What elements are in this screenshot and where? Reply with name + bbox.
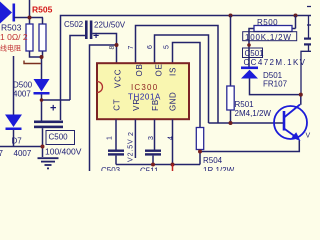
capacitor C503 [108,150,124,165]
svg-text:6: 6 [147,45,154,49]
svg-text:2M4,1/2W: 2M4,1/2W [235,109,272,118]
wire: resistor bottom leads [30,51,43,79]
IC notch [97,82,103,93]
transistor Q501 [274,105,307,142]
wire: C502 left plate branch [70,36,85,101]
wire: ground bus [116,164,200,166]
diode bridge (cut at left edge) [0,2,15,24]
svg-text:R505: R505 [32,5,53,15]
svg-text:4007: 4007 [14,149,32,158]
svg-text:7: 7 [128,46,135,50]
svg-text:VCC: VCC [113,69,122,88]
wire: C502 right plate to pin8 [90,34,117,172]
wire: bridge to resistors [14,17,43,19]
capacitor C510 at right edge [301,16,311,95]
svg-text:1R,1/2W: 1R,1/2W [203,166,235,171]
wire: pin5 loop to R504 [173,43,201,128]
node: bus junction pin4 [171,163,175,167]
svg-text:D500: D500 [13,81,33,90]
svg-text:IC300: IC300 [131,83,158,92]
svg-text:2: 2 [128,132,135,136]
node: junction bridge/resistors [28,16,32,20]
wire: right resistor top lead [42,18,44,25]
wire: pin4 lead [172,120,174,165]
wire: emitter return [200,141,299,152]
capacitor C500 [34,103,63,129]
wire: left horizontal to edge [0,146,43,148]
svg-text:+: + [93,30,99,42]
node: rail junction at R501 [229,14,233,18]
wire: vertical from top edge [29,0,31,24]
svg-text:1 0Ω/ 2: 1 0Ω/ 2 [0,32,28,42]
capacitor C502 [85,21,99,43]
edge tick marks [307,7,311,26]
svg-text:3: 3 [148,136,155,140]
svg-text:R501: R501 [235,100,255,109]
label C501 [243,48,263,58]
svg-text:4007: 4007 [13,90,31,99]
wire: pin1 lead [115,120,117,150]
node: junction on pin8 lead [115,43,119,47]
wire: D500 to C500 and to C502 branch [42,95,71,121]
svg-text:8: 8 [109,46,116,50]
node: junction on R500 lead [247,43,251,47]
resistor R503 (left vertical body) [26,24,33,51]
node: junction at C500 lead [41,145,45,149]
op-amp/PWM IC U300 body [97,63,189,119]
node: rail junction at R500 [294,14,298,18]
node: junction R504/emitter [198,150,202,154]
resistor R504 [196,128,203,150]
resistor R505 (right vertical body) [39,24,46,51]
svg-text:V2.5V: V2.5V [128,138,135,162]
diode D500 [34,79,50,95]
svg-text:1: 1 [107,136,114,140]
wire: R504 bottom lead [199,150,201,165]
svg-text:OE: OE [155,63,164,76]
wire: brown stub near D500 [24,61,41,64]
svg-text:CC472M.1KV: CC472M.1KV [244,58,307,67]
svg-text:V: V [306,133,311,140]
svg-text:R503: R503 [1,23,22,33]
ground [38,158,59,168]
diode D501 [241,67,301,95]
svg-text:IS: IS [169,67,178,76]
svg-text:GND: GND [168,92,177,111]
resistor R501 [227,16,234,124]
svg-text:100K,1/2W: 100K,1/2W [245,33,292,42]
svg-text:22U/50V: 22U/50V [94,21,126,30]
svg-text:线电阻: 线电阻 [0,44,21,53]
capacitor C511 [145,150,161,165]
node: junction collector/D501 [299,93,303,97]
node: bus junction C511 [151,163,155,167]
svg-text:+: + [50,103,56,115]
svg-text:C500: C500 [49,133,69,142]
wire: pin2 lead [134,120,136,159]
wire: pin3 lead [154,120,156,150]
svg-text:100/400V: 100/400V [45,147,82,157]
label 100K,1/2W [243,32,297,41]
svg-text:D7: D7 [12,137,23,146]
svg-text:R504: R504 [203,156,223,165]
wire: pin6 loop [155,35,209,123]
svg-text:C502: C502 [64,20,84,29]
svg-text:C511: C511 [140,167,159,172]
node: resistor bottom junction [40,55,44,59]
svg-text:OB: OB [135,63,144,76]
svg-text:C503: C503 [101,166,121,171]
wire: base drive [209,122,285,124]
wire: red stub below pin4 [172,165,174,172]
wire: main top rail [61,16,312,121]
svg-text:C501: C501 [245,49,265,58]
node: junction R501 bottom [229,121,233,125]
diode D7 [5,56,22,147]
label C500 with frame [46,131,75,145]
svg-text:5: 5 [164,45,171,49]
resistor R500 [249,16,296,67]
svg-text:4: 4 [167,136,174,140]
wire: C500 bottom to ground [42,128,44,157]
wire: pin7 loop [136,26,219,124]
svg-text:TH201A: TH201A [128,93,161,102]
svg-text:FR107: FR107 [263,80,288,89]
svg-text:CT: CT [112,99,121,111]
wire: collector [300,95,302,105]
svg-text:R500: R500 [257,18,278,27]
node: junction D500/C502 branch [40,98,44,102]
